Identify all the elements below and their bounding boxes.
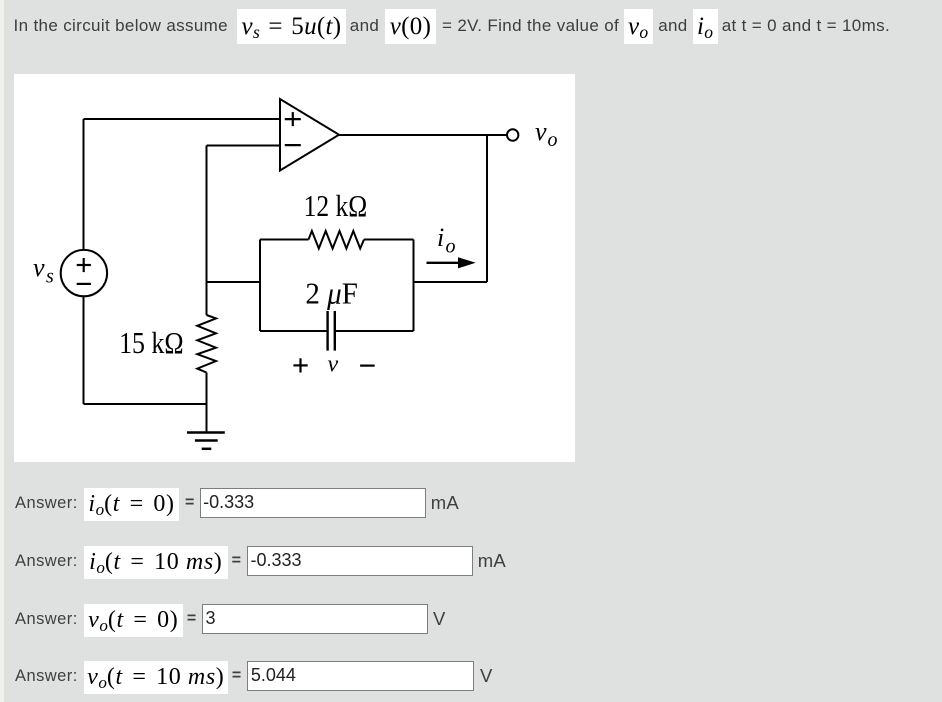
wire box bottom right lead [334,330,413,332]
svg-text:i: i [437,223,444,252]
op-amp U1 triangle [280,99,339,171]
wire bottom [84,403,207,405]
svg-text:v: v [33,253,45,282]
label vs (source voltage) [33,117,558,378]
wire node to box left [207,281,261,283]
resistor R1 15 kOhm zigzag [197,315,216,373]
wire op-amp output [339,134,507,136]
wire box bottom left lead [260,330,327,332]
svg-text:o: o [446,236,456,258]
wire box top left lead [260,239,309,241]
capacitor polarity marks + v - [293,358,374,372]
svg-text:v: v [535,117,547,146]
wire left vertical bottom [83,296,85,404]
svg-text:15 kΩ: 15 kΩ [119,326,184,360]
svg-text:v: v [328,352,339,378]
resistor R2 12 kOhm zigzag [309,231,365,249]
node vo output terminal circle [507,129,518,140]
svg-text:o: o [548,129,558,151]
feedback box left edge [259,240,261,332]
answer row 4 [0,661,942,695]
svg-text:2 μF: 2 μF [305,276,358,310]
answer row 3 [0,604,942,638]
source polarity marks [77,258,91,284]
svg-text:12 kΩ: 12 kΩ [304,189,368,223]
svg-text:s: s [46,266,54,288]
op-amp input polarity marks [285,112,301,145]
current io arrow [427,257,476,268]
wire inverting input [207,145,281,147]
capacitor C1 2 uF plates [328,311,335,351]
wire box right to output [414,281,488,283]
answer row 1 [0,488,942,522]
voltage source VS circle [61,250,107,296]
wire resistor to ground [206,373,208,433]
wire inverting vertical [206,146,208,316]
answer row 2 [0,546,942,580]
ground [187,433,225,449]
wire box top right lead [364,239,414,241]
wire output vertical [486,135,488,282]
feedback box right edge [413,240,415,332]
wire noninverting input [84,118,281,120]
wire left vertical top [83,119,85,250]
